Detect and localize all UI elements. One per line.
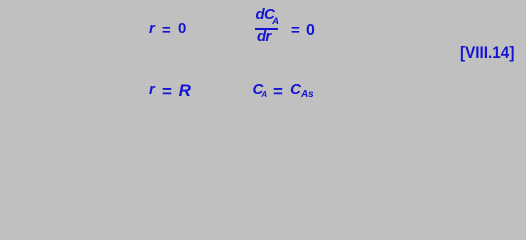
dr denominator [257, 29, 270, 44]
r = R (second boundary condition, left part) [149, 80, 179, 97]
fraction dCA/dr numerator [256, 7, 279, 22]
CA [253, 82, 268, 97]
R [179, 82, 191, 99]
r = 0 (first boundary condition, left part) [149, 21, 186, 36]
= [273, 83, 283, 100]
equation number [VIII.14] [460, 44, 514, 61]
fraction bar [255, 28, 278, 30]
= 0 after fraction [291, 23, 315, 39]
CAs [290, 82, 314, 97]
